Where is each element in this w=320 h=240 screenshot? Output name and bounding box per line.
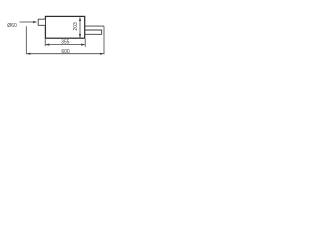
svg-text:Ø60: Ø60	[7, 23, 17, 29]
svg-text:203: 203	[73, 22, 79, 31]
svg-text:600: 600	[61, 49, 70, 55]
svg-text:355: 355	[61, 40, 70, 46]
